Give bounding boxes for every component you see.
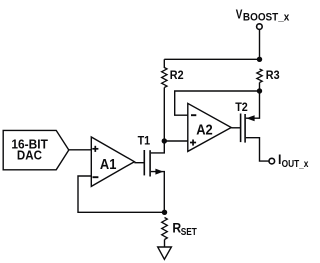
svg-text:A1: A1 — [100, 155, 117, 172]
svg-text:BOOST_x: BOOST_x — [243, 12, 290, 23]
terminal IOUT_x — [269, 158, 275, 164]
DAC block — [3, 130, 69, 169]
wire R2 bottom to node at A2 + — [163, 88, 165, 142]
wire top rail from R2 to top node — [164, 58, 259, 60]
label RSET — [172, 219, 181, 235]
svg-text:T1: T1 — [138, 134, 151, 148]
T1 source arrow — [155, 169, 163, 175]
op-amp A1 minus input symbol — [93, 176, 99, 178]
transistor T1 — [144, 150, 150, 177]
svg-text:R2: R2 — [170, 68, 184, 82]
wire T1 drain up to node — [151, 141, 165, 153]
svg-text:OUT_x: OUT_x — [282, 158, 309, 169]
wire R3 bottom stub — [259, 83, 261, 92]
terminal VBOOST_x — [257, 24, 263, 30]
label IOUT_x — [278, 151, 281, 167]
op-amp A1 plus input symbol — [92, 146, 98, 152]
node at R3 bottom — [257, 88, 262, 93]
op-amp A1 — [91, 137, 134, 186]
svg-text:R3: R3 — [266, 68, 280, 82]
wire A1 feedback run — [78, 176, 165, 212]
label VBOOST_x — [236, 8, 243, 21]
resistor R2 — [162, 68, 167, 88]
label DAC — [17, 148, 42, 163]
label T1 — [138, 134, 151, 148]
node at R3 top — [257, 57, 262, 62]
wire A2 output to T2 gate — [231, 127, 240, 129]
svg-text:SET: SET — [181, 226, 198, 237]
label A2 — [196, 120, 213, 137]
label A1 — [100, 155, 117, 172]
svg-text:DAC: DAC — [17, 148, 42, 163]
label 16-BIT — [11, 137, 48, 151]
wire A2 + input from node — [164, 140, 188, 142]
wire R2 top stub — [163, 59, 165, 68]
resistor R3 — [257, 69, 262, 83]
wire A2 feedback top run — [175, 91, 260, 115]
label T2 — [235, 100, 248, 114]
wire A1 output to T1 gate — [134, 162, 144, 164]
wire T2 source to IOUT terminal — [246, 138, 269, 161]
transistor T2 — [241, 114, 246, 143]
node at T1 drain — [162, 138, 167, 143]
T2 source arrow — [246, 115, 255, 121]
label R2 — [170, 68, 184, 82]
wire RSET to ground — [164, 240, 166, 248]
svg-text:A2: A2 — [196, 120, 213, 137]
wire DAC to A1 + input — [69, 149, 92, 151]
svg-text:V: V — [236, 8, 243, 21]
svg-text:T2: T2 — [235, 100, 248, 114]
ground — [158, 247, 172, 259]
node at RSET top — [162, 210, 167, 215]
wire VBOOST terminal to top node — [259, 30, 261, 59]
label R3 — [266, 68, 280, 82]
op-amp A2 minus input symbol — [191, 114, 196, 116]
op-amp A2 plus input symbol — [190, 140, 196, 146]
op-amp A2 — [188, 103, 231, 151]
wire T2 drain up to node — [246, 91, 260, 118]
resistor RSET — [162, 218, 168, 240]
wire T1 source down to RSET node — [151, 172, 165, 213]
